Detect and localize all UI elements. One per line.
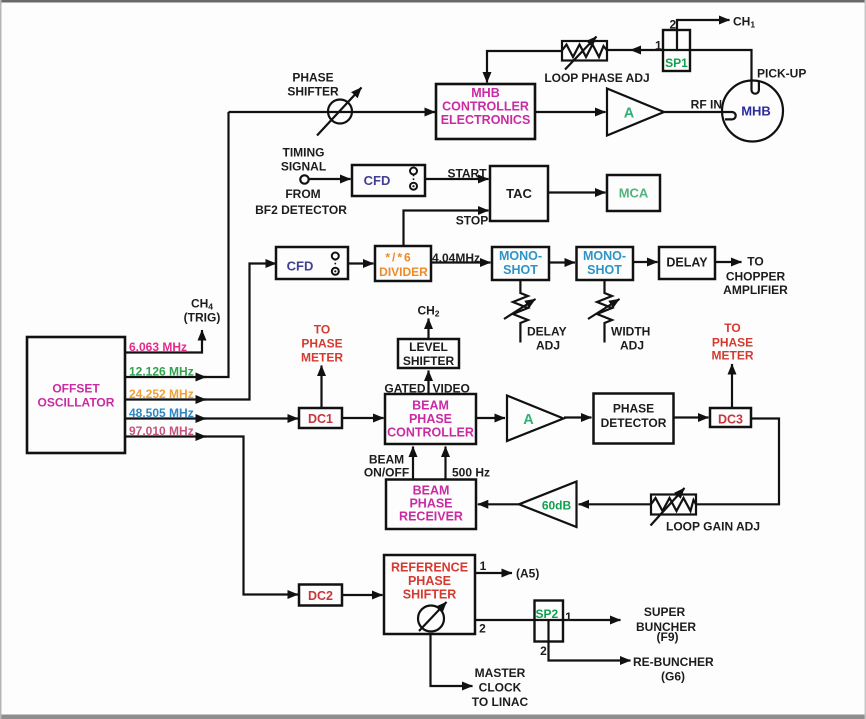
discriminator CFD1 output dots <box>413 175 415 183</box>
svg-text:RF IN: RF IN <box>691 98 722 112</box>
svg-text:START: START <box>447 167 487 181</box>
svg-text:SP1: SP1 <box>665 56 688 70</box>
potentiometer R2 adjust arrow <box>504 299 536 319</box>
svg-text:2: 2 <box>540 644 547 658</box>
amplifier A1 <box>607 89 664 136</box>
svg-text:PHASE: PHASE <box>292 71 333 85</box>
wire DC1 to beam phase controller <box>342 417 384 419</box>
svg-text:ON/OFF: ON/OFF <box>364 466 409 480</box>
wire DC2 to reference phase shifter <box>342 594 383 596</box>
attenuator R1 zigzag <box>562 45 607 58</box>
wire beam on/off receiver to controller <box>412 447 414 480</box>
svg-text:RE-BUNCHER: RE-BUNCHER <box>633 655 714 669</box>
svg-text:24.252 MHz: 24.252 MHz <box>129 387 194 401</box>
svg-text:BEAM: BEAM <box>369 453 404 467</box>
receiver U8 BEAM PHASE RECEIVER box <box>386 480 476 530</box>
terminal timing signal input <box>300 175 308 183</box>
wire pick-up to loop phase adjuster <box>631 50 752 84</box>
svg-text:DETECTOR: DETECTOR <box>601 416 667 430</box>
svg-text:PHASE: PHASE <box>613 402 654 416</box>
phase shifter PS2 adjust arrow <box>419 602 447 631</box>
svg-text:CH1: CH1 <box>733 15 755 30</box>
svg-text:1: 1 <box>480 559 487 573</box>
splitter SP1 box <box>663 30 690 71</box>
svg-text:CONTROLLER: CONTROLLER <box>387 426 474 440</box>
coupler DC3 box <box>710 408 751 427</box>
resonator MHB circle <box>722 81 783 142</box>
svg-text:DELAY: DELAY <box>666 256 708 270</box>
svg-text:60dB: 60dB <box>542 499 572 513</box>
potentiometer R2 DELAY ADJ <box>513 280 528 343</box>
wire MHB controller to amplifier A1 <box>535 111 606 113</box>
svg-text:MHB: MHB <box>471 86 499 100</box>
svg-text:STOP: STOP <box>456 214 488 228</box>
wire phase detector to DC3 <box>674 416 709 418</box>
attenuator R4 LOOP GAIN ADJ box <box>651 495 696 515</box>
svg-text:MCA: MCA <box>619 186 649 201</box>
attenuator R4 zigzag <box>651 498 696 511</box>
svg-text:DIVIDER: DIVIDER <box>379 265 428 279</box>
wire MS1 to MS2 <box>549 261 575 263</box>
svg-text:OSCILLATOR: OSCILLATOR <box>38 396 115 410</box>
detector U7 PHASE DETECTOR box <box>594 394 674 444</box>
svg-text:SHIFTER: SHIFTER <box>403 588 456 602</box>
svg-text:BF2 DETECTOR: BF2 DETECTOR <box>255 203 347 217</box>
svg-text:GATED: GATED <box>384 382 425 396</box>
wire 500 Hz receiver to controller <box>444 447 446 480</box>
svg-text:DC2: DC2 <box>308 589 333 603</box>
wire SP1 port 2 tap to CH1 <box>677 20 730 50</box>
wire 12.126 MHz output <box>125 376 206 378</box>
svg-text:48.505 MHz: 48.505 MHz <box>129 406 194 420</box>
attenuator R4 adjust arrow <box>651 488 685 526</box>
wire DC3 to loop gain attenuator <box>696 419 779 505</box>
wire phase shifter line to MHB controller <box>229 111 436 113</box>
wire attenuator R4 to amplifier A3 <box>579 503 652 505</box>
wire beam phase controller to level shifter <box>427 371 429 395</box>
svg-text:*/*6: */*6 <box>385 251 412 265</box>
level shifter U6 box <box>398 339 459 368</box>
discriminator CFD2 box <box>276 247 348 279</box>
svg-text:(TRIG): (TRIG) <box>184 311 221 325</box>
wire START CFD1 to TAC <box>425 178 489 180</box>
wire DC1 to phase meter <box>320 366 322 408</box>
svg-text:ELECTRONICS: ELECTRONICS <box>441 113 531 127</box>
coupler DC1 box <box>299 408 342 428</box>
svg-text:WIDTH: WIDTH <box>611 325 650 339</box>
svg-text:A: A <box>523 412 534 428</box>
attenuator R1 LOOP PHASE ADJ box <box>562 41 607 61</box>
svg-text:FROM: FROM <box>285 187 320 201</box>
wire 48.505 MHz output <box>125 417 206 419</box>
svg-text:SHIFTER: SHIFTER <box>287 85 339 99</box>
svg-text:SIGNAL: SIGNAL <box>281 160 326 174</box>
svg-text:DC1: DC1 <box>308 412 333 426</box>
svg-text:12.126 MHz: 12.126 MHz <box>129 365 194 379</box>
wire timing signal to CFD1 <box>308 178 351 180</box>
svg-text:SP2: SP2 <box>536 607 559 621</box>
svg-text:CFD: CFD <box>364 173 391 188</box>
svg-text:2: 2 <box>670 18 677 32</box>
wire level shifter to CH2 <box>427 319 429 340</box>
wire 6.063 MHz output <box>125 330 202 353</box>
svg-text:BEAM: BEAM <box>412 399 449 413</box>
mono-shot MS2 box <box>577 247 634 280</box>
wire CFD2 to divider <box>348 262 374 264</box>
potentiometer R3 adjust arrow <box>588 299 620 319</box>
svg-text:BEAM: BEAM <box>413 484 450 498</box>
border frame left <box>0 0 2 719</box>
svg-text:PHASE: PHASE <box>409 412 452 426</box>
svg-text:CH4: CH4 <box>191 297 213 312</box>
svg-text:CHOPPER: CHOPPER <box>726 270 786 284</box>
coupler loop RF IN <box>723 112 736 119</box>
svg-text:PHASE: PHASE <box>301 337 342 351</box>
svg-text:MONO-: MONO- <box>499 249 542 263</box>
controller U2 MHB CONTROLLER ELECTRONICS box <box>436 84 535 139</box>
svg-text:TAC: TAC <box>506 186 532 201</box>
wire MS2 to delay <box>633 261 658 263</box>
svg-text:500 Hz: 500 Hz <box>452 466 490 480</box>
svg-text:SHOT: SHOT <box>503 263 538 277</box>
potentiometer R3 WIDTH ADJ <box>597 280 612 343</box>
discriminator CFD2 output dots <box>334 259 336 266</box>
wire divider to mono-shot MS1 <box>431 261 491 263</box>
coupler loop PICK-UP <box>752 82 759 94</box>
svg-text:SHIFTER: SHIFTER <box>403 354 455 368</box>
wire SP2 port 2 tap to re-buncher <box>549 620 631 661</box>
svg-text:METER: METER <box>712 349 754 363</box>
wire RPS port 1 to A5 <box>475 572 512 574</box>
svg-text:AMPLIFIER: AMPLIFIER <box>723 283 788 297</box>
svg-text:PHASE: PHASE <box>712 336 753 350</box>
svg-text:VIDEO: VIDEO <box>433 382 470 396</box>
wire DC3 to phase meter <box>731 364 733 407</box>
svg-text:TO: TO <box>724 321 740 335</box>
wire RPS port 2 to super buncher <box>475 619 621 621</box>
amplifier A3 60dB <box>519 482 577 528</box>
svg-text:ADJ: ADJ <box>536 339 560 353</box>
wire amplifier A3 to beam phase receiver <box>478 503 519 505</box>
attenuator R1 adjust arrow <box>565 37 597 70</box>
svg-text:PHASE: PHASE <box>409 497 452 511</box>
svg-text:97.010 MHz: 97.010 MHz <box>129 424 194 438</box>
svg-text:A: A <box>624 106 635 122</box>
phase shifter PS1 adjust arrow <box>317 88 362 136</box>
svg-text:CFD: CFD <box>287 259 314 274</box>
svg-text:CONTROLLER: CONTROLLER <box>442 100 529 114</box>
analyzer MCA box <box>607 175 660 211</box>
wire RPS to master clock <box>431 634 473 686</box>
phase shifter PS2 circle <box>418 606 444 632</box>
svg-text:4.04MHz: 4.04MHz <box>432 251 480 265</box>
svg-text:PHASE: PHASE <box>408 574 451 588</box>
wire amplifier A1 to MHB resonator RF IN <box>664 111 723 113</box>
svg-text:TIMING: TIMING <box>283 146 325 160</box>
svg-text:MASTER: MASTER <box>475 666 526 680</box>
svg-text:REFERENCE: REFERENCE <box>391 561 468 575</box>
wire arrowtail into attenuator R1 <box>607 49 631 51</box>
svg-text:CLOCK: CLOCK <box>479 681 522 695</box>
svg-text:ADJ: ADJ <box>620 339 644 353</box>
mono-shot MS1 box <box>492 247 549 280</box>
svg-text:(G6): (G6) <box>661 670 685 684</box>
wire attenuator R1 to MHB controller top <box>487 51 562 83</box>
wire 97.010 MHz output <box>125 435 206 437</box>
svg-text:CH2: CH2 <box>417 304 439 319</box>
splitter SP2 box <box>535 601 564 642</box>
wire TAC to MCA <box>548 191 606 193</box>
svg-text:(F9): (F9) <box>657 630 679 644</box>
shifter U9 REFERENCE PHASE SHIFTER box <box>384 555 475 634</box>
svg-text:LOOP GAIN ADJ: LOOP GAIN ADJ <box>666 520 760 534</box>
svg-text:DELAY: DELAY <box>527 325 567 339</box>
svg-text:RECEIVER: RECEIVER <box>399 510 463 524</box>
wire beam phase controller to amplifier A2 <box>476 417 505 419</box>
phase shifter PS1 circle <box>328 100 352 124</box>
wire delay to chopper amplifier <box>715 261 742 263</box>
svg-text:METER: METER <box>301 351 343 365</box>
converter TAC box <box>490 166 548 221</box>
svg-text:6.063 MHz: 6.063 MHz <box>129 340 187 354</box>
svg-text:LEVEL: LEVEL <box>409 340 448 354</box>
svg-text:PICK-UP: PICK-UP <box>757 67 806 81</box>
wire 97.010 MHz riser to DC2 <box>204 437 298 595</box>
controller U5 BEAM PHASE CONTROLLER box <box>385 394 476 444</box>
svg-text:TO: TO <box>314 323 330 337</box>
svg-text:MONO-: MONO- <box>583 249 626 263</box>
wire amplifier A2 to phase detector <box>564 416 592 418</box>
wire STOP divider to TAC <box>404 211 489 247</box>
wire 12.126 MHz riser to phase shifter line <box>204 112 229 377</box>
svg-text:TO LINAC: TO LINAC <box>472 695 529 709</box>
wire 24.252 MHz riser to CFD2 <box>204 264 276 400</box>
delay U4 DELAY box <box>659 247 715 279</box>
svg-text:1: 1 <box>655 39 662 53</box>
discriminator CFD1 box <box>352 165 425 196</box>
svg-text:(A5): (A5) <box>516 567 539 581</box>
wire 48.505 MHz to DC1 <box>204 417 298 419</box>
svg-text:OFFSET: OFFSET <box>52 382 100 396</box>
svg-text:SUPER: SUPER <box>644 605 686 619</box>
oscillator U1 OFFSET OSCILLATOR <box>27 337 125 453</box>
wire 24.252 MHz output <box>125 398 206 400</box>
svg-text:DC3: DC3 <box>718 413 743 427</box>
border frame bottom <box>0 715 866 719</box>
svg-text:LOOP PHASE ADJ: LOOP PHASE ADJ <box>544 71 649 85</box>
divider U3 box <box>375 246 431 281</box>
svg-text:TO: TO <box>747 255 763 269</box>
border frame top <box>0 0 866 3</box>
svg-text:2: 2 <box>479 622 486 636</box>
border frame right <box>865 0 866 719</box>
svg-text:1: 1 <box>565 610 572 624</box>
amplifier A2 <box>507 396 564 442</box>
coupler DC2 box <box>299 585 342 606</box>
svg-text:SHOT: SHOT <box>587 263 622 277</box>
svg-text:MHB: MHB <box>741 104 771 119</box>
